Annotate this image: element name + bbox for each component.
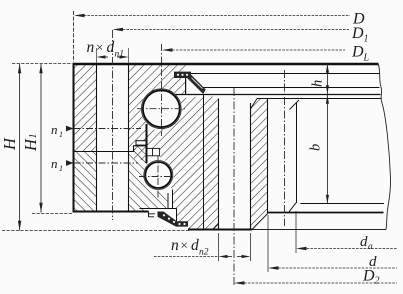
svg-text:×: × [96, 40, 103, 55]
inner ring main section [148, 97, 219, 230]
svg-text:d: d [191, 237, 199, 254]
thick middle edge [146, 124, 148, 163]
upper raceway pocket [141, 88, 182, 129]
inner ring bottom face [188, 229, 252, 231]
bolt hole strip dn1 (white) [97, 63, 129, 212]
D2 dimension [237, 282, 398, 284]
top face line [73, 63, 379, 65]
step chamfer [289, 203, 296, 212]
inner ring left surface [203, 95, 205, 230]
seal retainer edge [176, 208, 178, 226]
svg-text:n: n [87, 39, 95, 56]
svg-text:H: H [21, 138, 40, 152]
interlock tab [136, 141, 146, 145]
flange underside right [257, 98, 381, 100]
dn1 centerline [112, 30, 114, 220]
bolt hole strip dn2 (white) [219, 97, 251, 230]
bottom line continuation [252, 229, 386, 231]
flange line 2 [191, 73, 380, 75]
bottom seal bracket [149, 214, 156, 217]
svg-text:1: 1 [59, 164, 63, 173]
svg-text:d: d [360, 234, 368, 250]
dn1 hole edges [96, 48, 98, 64]
col B left edge [250, 103, 252, 230]
svg-text:D: D [362, 268, 375, 285]
inner ring column right of bolt hole [251, 99, 268, 230]
split line between outer halves [74, 146, 147, 152]
lower ball centerline vertical [157, 153, 159, 198]
step face da [301, 203, 385, 205]
dn1 width arrows [97, 55, 129, 58]
bottom seal [158, 212, 189, 227]
svg-text:D: D [351, 44, 364, 61]
svg-text:d: d [107, 39, 115, 56]
bore top chamfer [290, 100, 300, 110]
b dimension [326, 95, 328, 204]
svg-text:n: n [171, 237, 179, 254]
svg-text:n2: n2 [199, 248, 209, 258]
svg-text:a: a [368, 242, 373, 252]
lower ball [145, 162, 171, 188]
outer ring upper half section [74, 64, 186, 152]
da dimension [299, 248, 397, 250]
inner step between balls [147, 148, 160, 155]
svg-text:n: n [51, 122, 58, 137]
svg-text:H: H [0, 137, 19, 151]
recess face [268, 212, 384, 214]
svg-text:1: 1 [28, 134, 39, 139]
bottom seal groove wall [148, 212, 150, 218]
lip right edge [185, 73, 187, 95]
svg-text:L: L [363, 53, 370, 64]
D1 dimension line [115, 29, 349, 31]
svg-text:h: h [310, 80, 326, 87]
outer ring lower half section [74, 152, 169, 212]
dn2 hole exit chamfer [213, 223, 219, 229]
spacer cross-hatch between ring halves [134, 146, 146, 160]
col B right edge [267, 99, 269, 214]
svg-text:1: 1 [364, 34, 369, 45]
outer ring bottom face [73, 211, 149, 213]
col B top chamfer [251, 99, 258, 110]
outer ring left edge [73, 64, 75, 212]
D dimension line [74, 11, 351, 62]
lower ball centerline horizontal [139, 176, 172, 178]
seal groove line [140, 208, 177, 210]
flange line 3 [204, 87, 380, 89]
dn2 width arrows [219, 255, 251, 258]
upper ball centerline vertical [161, 44, 163, 136]
upper ball centerline horizontal [137, 108, 186, 110]
dn2 centerline [233, 88, 235, 287]
d dimension [271, 267, 398, 269]
upper raceway arc [141, 89, 181, 129]
support right edge [172, 190, 174, 209]
H1 dimension [40, 64, 42, 213]
svg-text:2: 2 [375, 276, 380, 287]
svg-text:D: D [351, 25, 364, 42]
top seal [174, 72, 206, 94]
bore surface edge [296, 103, 298, 203]
h dimension [326, 64, 328, 94]
flange underside [204, 94, 381, 96]
H dimension [19, 64, 21, 231]
upper ball [143, 90, 180, 127]
lower raceway arc [144, 161, 173, 190]
recess chamfer [252, 213, 268, 229]
svg-text:n: n [51, 156, 58, 171]
svg-text:1: 1 [59, 130, 63, 139]
support left edge [167, 193, 169, 208]
DL dimension line [165, 49, 346, 51]
flange hole centerline [284, 70, 286, 226]
lower raceway pocket [143, 160, 173, 190]
dn2 hole left edge [218, 99, 220, 230]
break line [378, 64, 391, 230]
lip underside [175, 94, 204, 96]
svg-text:×: × [181, 238, 188, 253]
svg-text:b: b [308, 144, 324, 151]
